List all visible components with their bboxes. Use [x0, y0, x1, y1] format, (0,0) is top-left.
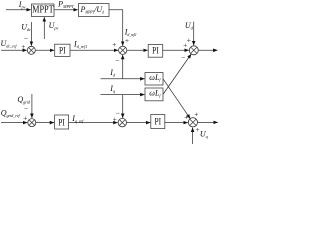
- svg-text:PMPPT: PMPPT: [57, 0, 74, 9]
- svg-text:Iq_ref: Iq_ref: [71, 114, 84, 124]
- svg-text:PI: PI: [59, 45, 66, 56]
- svg-text:Id: Id: [109, 68, 116, 78]
- svg-text:−: −: [116, 109, 120, 118]
- svg-text:−: −: [115, 56, 119, 65]
- svg-text:−: −: [24, 34, 28, 43]
- svg-text:+: +: [112, 40, 116, 49]
- svg-text:Udc: Udc: [21, 22, 31, 32]
- svg-text:MPPT: MPPT: [32, 4, 54, 15]
- svg-text:+: +: [194, 110, 198, 119]
- svg-text:+: +: [125, 36, 129, 45]
- svg-text:Ipv: Ipv: [18, 0, 26, 10]
- svg-text:Ud: Ud: [185, 21, 194, 31]
- svg-text:Uq: Uq: [200, 130, 209, 140]
- svg-text:+: +: [23, 113, 27, 122]
- svg-text:−: −: [181, 53, 185, 62]
- svg-text:Id_ref1: Id_ref1: [73, 39, 87, 49]
- svg-text:+: +: [195, 125, 199, 134]
- svg-text:−: −: [24, 104, 28, 113]
- svg-text:Iq: Iq: [109, 84, 116, 94]
- svg-text:+: +: [183, 41, 187, 50]
- svg-text:PI: PI: [58, 117, 65, 128]
- svg-text:Qgrid_ref: Qgrid_ref: [1, 109, 21, 119]
- svg-text:PI: PI: [155, 117, 162, 128]
- svg-text:PI: PI: [152, 46, 159, 57]
- svg-text:+: +: [184, 113, 188, 122]
- svg-text:Upv: Upv: [49, 21, 59, 31]
- svg-text:Udc_ref: Udc_ref: [1, 39, 18, 49]
